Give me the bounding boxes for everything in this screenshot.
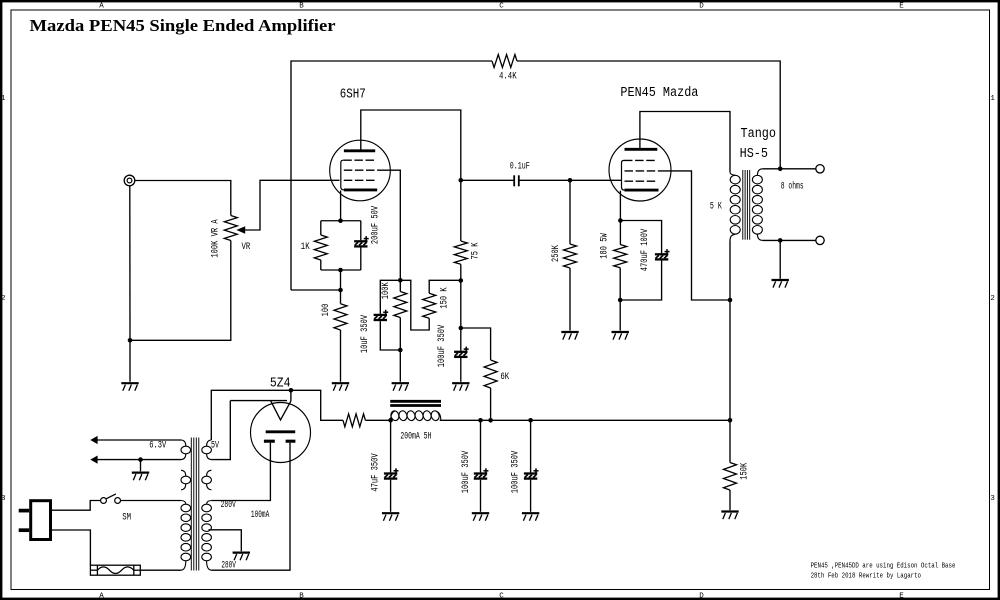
node filter3 [528,418,533,423]
svg-text:100uF 350V: 100uF 350V [461,451,472,494]
AC plug [31,501,51,540]
terminal output + [816,165,824,173]
wire 6.3V top lead [97,439,181,441]
capacitor C-filter3 100uF 350V [530,420,532,472]
wire switch to primary [121,500,182,502]
wire NFB horizontal [291,289,341,291]
V1 g3-cathode strap [341,160,344,190]
svg-text:150 K: 150 K [440,287,451,308]
ground screen divider [392,382,409,384]
wire V2 plate loop [640,112,730,169]
svg-text:1K: 1K [301,242,310,253]
ground bleeder [721,510,738,512]
svg-text:D: D [699,3,704,11]
svg-text:470uF 100V: 470uF 100V [640,229,651,272]
V1 plate bar [344,149,375,152]
VR wiper arrow [236,226,245,234]
svg-text:8 ohms: 8 ohms [781,180,804,192]
inductor L1 200mA 5H [390,400,441,403]
node filter2 [478,418,483,423]
svg-text:A: A [99,3,104,11]
node choke in [388,418,393,423]
resistor Rk 1K [320,221,322,235]
wire coupling to V2 grid [520,179,622,181]
svg-text:200mA 5H: 200mA 5H [400,431,431,442]
capacitor C-screen 10uF 350V [380,280,400,314]
T2 secondary winding [757,169,762,175]
capacitor C-filter2 100uF 350V [480,420,482,472]
svg-text:B: B [299,593,304,600]
ground input [121,382,138,384]
wire cathode to filament [290,390,292,401]
tube V3 5Z4 [251,403,311,463]
T1 winding 6.3V [181,440,186,446]
wire 75K top [460,180,462,241]
wire input to VR [135,181,231,216]
node B+ OPT [728,298,733,303]
tube V1 6SH7 [330,140,391,201]
svg-text:100K: 100K [381,282,392,299]
T1 winding left mid [181,470,186,476]
wire V1 g2 lead [378,170,400,291]
svg-text:1: 1 [1,95,6,103]
svg-text:100uF 350V: 100uF 350V [511,451,522,494]
svg-text:150K: 150K [739,463,750,480]
wire 75K bottom [460,264,462,280]
svg-text:E: E [899,593,904,600]
node input ground junction [128,338,133,343]
svg-text:100mA: 100mA [251,510,269,521]
node B+ rail right end [728,418,733,423]
svg-text:6K: 6K [500,372,509,383]
wire plate to coupling cap [461,179,514,181]
svg-text:B: B [299,3,304,11]
svg-text:1: 1 [990,95,995,103]
ground filter2 [472,512,489,514]
T1 HV winding [207,501,212,505]
wire NFB left vertical [291,61,492,290]
V2 grid g1 dashed [625,180,658,182]
T1 winding 5V [207,440,212,446]
wire 6.3V bottom lead [97,459,181,461]
wire HV center tap [209,530,242,551]
svg-text:2: 2 [990,295,995,303]
resistor bleeder 150K [729,420,731,462]
arrow 6.3V a [90,436,97,444]
svg-text:6.3V: 6.3V [149,441,166,452]
svg-text:6SH7: 6SH7 [340,87,366,102]
wire fuse to primary bottom [140,569,181,571]
ground filter1 [382,512,399,514]
node V1 screen [398,278,403,283]
svg-text:75 K: 75 K [471,243,482,260]
V3 plate bars [264,440,275,443]
wire choke out / B+ rail [440,419,730,421]
capacitor C-decouple 100uF 350V [460,328,462,351]
wire secondary bottom [763,239,816,241]
wire HV 280V bottom tap [211,443,290,570]
V3 filament V [271,401,291,420]
V1 grid g1 dashed [344,179,377,181]
node secondary bottom [778,238,783,243]
node V3 cathode top [289,388,294,393]
svg-text:C: C [499,593,504,600]
svg-text:100uF 350V: 100uF 350V [437,325,448,368]
capacitor Ck2 470uF 100V [620,221,661,254]
resistor R-drop 6K [461,328,491,360]
V1 cathode bar [344,188,377,191]
node cathode network bottom [338,268,343,273]
ground heater [132,472,149,474]
ground V2 cathode [612,331,629,333]
svg-text:180 5W: 180 5W [600,233,611,259]
resistor Rg2 100K [394,292,407,318]
svg-text:10uF 350V: 10uF 350V [360,315,371,353]
svg-text:3: 3 [1,495,6,503]
input jack J1 [124,175,135,186]
wire secondary ground [779,240,781,278]
V2 grid g3 dashed [624,159,657,161]
node 6K bottom [488,418,493,423]
V2 g3-cathode strap [622,160,625,190]
svg-text:E: E [899,3,904,11]
wire secondary top [763,168,816,170]
capacitor Ck 200uF 50V [360,221,362,240]
svg-text:250K: 250K [551,245,562,262]
wire B+ node down [460,281,462,329]
capacitor C-filter1 47uF 350V [390,420,392,472]
wire NFB top right [517,61,780,169]
fuse F1 [90,565,140,575]
svg-text:Tango: Tango [741,127,777,142]
svg-text:VR: VR [242,242,251,253]
node NFB junction [338,288,343,293]
wire 5V bottom to filament [211,401,230,460]
node heater ground [138,457,143,462]
wire plug top [52,501,101,511]
cathode network top rail [321,220,361,222]
tube V2 PEN45 [609,139,671,201]
wire VR bottom to ground node [130,241,231,341]
transformer T1 core [190,438,192,571]
ground speaker return [772,279,789,281]
svg-text:28th Feb 2018 Rewrite by Lagar: 28th Feb 2018 Rewrite by Lagarto [811,572,921,580]
svg-text:C: C [499,3,504,11]
svg-text:0.1uF: 0.1uF [510,161,530,172]
ground center tap [233,551,250,553]
svg-text:280V: 280V [221,561,236,572]
V2 cathode bar [625,189,659,192]
svg-text:5V: 5V [211,440,219,451]
ground decouple cap [452,382,469,384]
ground 250K [561,331,578,333]
wire V2 cathode lead [619,191,621,221]
node V1 plate [459,178,464,183]
V1 grid g3 dashed [343,159,376,161]
svg-text:280V: 280V [221,500,236,511]
V3 cathode bar [266,430,296,433]
svg-text:HS-5: HS-5 [740,147,768,162]
wire jack ground side [129,186,131,340]
wire wiper to grid [245,180,340,230]
switch SM [101,498,107,504]
wire V1 cathode lead [340,191,342,221]
svg-text:5 K: 5 K [710,201,722,212]
resistor R-rect-out [343,414,365,427]
wire to choke [365,419,390,421]
node V2 grid [568,178,573,183]
terminal output - [816,236,824,244]
resistor R-NFB 4.4K [492,55,517,68]
svg-text:A: A [99,593,104,600]
resistor R-screen-feed 150 K [400,280,429,330]
V1 grid g2 dashed [344,169,378,171]
T1 primary winding [181,501,186,505]
cathode network bottom rail [321,269,361,271]
svg-text:100K VR A: 100K VR A [211,219,222,257]
wire to input ground [129,340,131,382]
V2 grid g2 dashed [625,170,660,172]
node decoupling [459,326,464,331]
wire 5V top to rectifier cathode [211,390,291,440]
ground 100ohm [332,382,349,384]
resistor Rk2 180 5W [619,221,621,245]
capacitor C-coupling 0.1uF [513,175,515,186]
node secondary top [778,167,783,172]
T2 primary winding 5 K [729,169,731,173]
T2 core [742,170,744,240]
wire filament left feed [230,400,287,402]
svg-text:2: 2 [1,295,6,303]
arrow 6.3V b [90,456,97,464]
svg-text:47uF 350V: 47uF 350V [371,453,382,491]
svg-text:5Z4: 5Z4 [270,376,291,391]
ground filter3 [522,512,539,514]
wire plug bottom [52,530,90,565]
wire B+ riser [729,300,731,420]
svg-text:4.4K: 4.4K [499,71,517,82]
svg-text:PEN45 ,PEN45DD are using Ediso: PEN45 ,PEN45DD are using Edison Octal Ba… [811,562,956,570]
node V2 cathode [618,218,623,223]
resistor Rg 250K [569,180,571,244]
node V2 cathode bottom [618,298,623,303]
node V1 cathode [338,218,343,223]
node B+ screen feed [459,278,464,283]
svg-text:100: 100 [321,304,332,317]
node screen divider bottom [398,348,403,353]
svg-text:PEN45 Mazda: PEN45 Mazda [620,86,698,101]
wire V1 plate loop [361,110,461,180]
V2 plate bar [625,148,658,151]
wire V2 g2 to B+ [659,171,730,300]
wire HV 280V top tap [211,443,270,501]
wire B+ takeoff [291,390,343,420]
wire heater ground [140,460,142,472]
svg-text:3: 3 [990,495,995,503]
wire to NFB node [340,270,342,290]
resistor R-plate 75 K [454,241,467,264]
svg-text:SM: SM [122,512,131,523]
svg-text:Mazda PEN45 Single Ended Ampli: Mazda PEN45 Single Ended Amplifier [30,16,336,35]
T1 winding right mid [207,470,212,476]
potentiometer VR 100K VR A [224,216,237,241]
resistor R-common 100 [340,290,342,304]
svg-text:D: D [699,593,704,600]
svg-text:200uF 50V: 200uF 50V [371,206,382,244]
